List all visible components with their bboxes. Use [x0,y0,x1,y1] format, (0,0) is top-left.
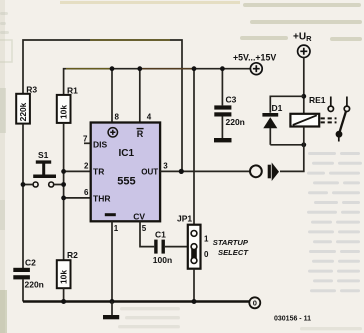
svg-text:R1: R1 [67,85,78,95]
junction rail-pin4 [137,66,142,71]
svg-text:OUT: OUT [141,168,158,177]
svg-text:THR: THR [93,193,110,203]
wire: JP1 bottom to ground bus [193,269,195,302]
IC1 internal ground marker [105,213,116,216]
terminal +5V [250,63,262,75]
svg-text:10k: 10k [59,105,69,119]
resistor R1 [57,95,71,123]
bleed-through artifacts bottom [118,307,362,330]
pin 7 stub [84,142,91,144]
pushbutton S1 [23,160,64,187]
wire: R1 bottom down to R2 [63,123,65,260]
svg-text:D1: D1 [272,103,283,113]
relay RE1 coil [290,114,319,127]
relay switch arm [340,111,346,131]
svg-text:+5V...+15V: +5V...+15V [233,52,276,62]
svg-text:IC1: IC1 [119,148,135,159]
svg-text:030156 - 11: 030156 - 11 [274,315,311,322]
junction D1 bottom [301,142,306,147]
wire: relay coil to OUT arrow [280,127,304,172]
junction D1 top [301,94,306,99]
svg-text:+UR: +UR [293,32,312,44]
junction THR [61,196,66,201]
wire tint overlay top [90,39,170,41]
wire: THR to node [64,197,91,199]
svg-text:RE1: RE1 [309,95,326,105]
wire: D1 bottom branch [270,144,304,146]
svg-text:R: R [137,129,144,139]
svg-text:R3: R3 [26,84,37,94]
wire: +UR to relay [303,58,305,114]
ground symbol [103,302,119,320]
svg-text:8: 8 [115,112,120,121]
wire: pin4 to rail [139,69,141,123]
wire tint overlay rail [66,68,111,70]
svg-text:220n: 220n [25,280,44,290]
wire: TR to node [64,170,91,172]
edge artifact marks left top [0,12,9,34]
wire: pin1 to ground bus [111,221,113,301]
diode D1 [262,113,278,145]
svg-text:555: 555 [117,175,135,187]
capacitor C1 [154,240,188,254]
svg-text:220n: 220n [226,117,245,127]
capacitor C2 [13,268,30,302]
svg-text:S1: S1 [38,150,49,160]
IC1 reset bar label [137,129,144,139]
svg-text:0: 0 [204,250,209,259]
bleed-through artifacts top right [240,3,362,41]
ground (C3) [214,138,232,142]
capacitor C3 [214,105,231,138]
svg-text:C2: C2 [25,257,36,267]
svg-text:5: 5 [142,224,147,233]
relay switch contacts [328,106,350,111]
junction rail-JP1 [192,66,197,71]
ground bus wire [23,300,249,302]
svg-text:STARTUP: STARTUP [213,238,249,247]
relay switch pole contact [336,131,342,137]
wire: R3 top to OUT node (top feedback wire) [23,40,182,171]
relay actuation dashed link [321,118,337,122]
junction S1 right [61,182,66,187]
off-board arrow [268,163,279,182]
wire: pin5 to C1 [140,221,154,246]
svg-text:6: 6 [84,188,89,197]
svg-text:7: 7 [83,134,88,143]
svg-text:SELECT: SELECT [218,248,249,257]
junction bus-R2 [61,299,66,304]
IC1 plus symbol (pin8) [108,128,117,137]
svg-text:R2: R2 [67,250,78,260]
svg-text:220k: 220k [18,102,28,121]
terminal +UR [298,45,310,57]
wire: R2 bottom to ground bus [63,288,65,301]
svg-text:2: 2 [84,161,89,170]
terminal 0 [249,297,260,308]
svg-text:TR: TR [93,167,104,177]
wire: OUT line [160,170,250,172]
edge artifact ghost box left [0,40,12,62]
edge artifact top [60,1,240,4]
op IC1 555 body [91,123,160,222]
wire: D1 top branch [270,96,304,113]
junction bus-pin1 [110,299,115,304]
wire: +5V rail [64,69,251,95]
junction S1 left [21,182,26,187]
svg-text:C3: C3 [226,94,237,104]
wire: rail to C3 [221,69,223,106]
resistor R3 [16,94,30,124]
svg-text:JP1: JP1 [177,214,192,224]
svg-text:1: 1 [204,235,209,244]
junction rail-C3 [220,66,225,71]
label STARTUP SELECT [213,238,250,257]
junction bus-JP1 [192,299,197,304]
resistor R2 [57,260,71,288]
svg-text:DIS: DIS [93,139,108,149]
junction OUT-R3 [179,169,184,174]
wire: pin8 to rail [111,69,113,123]
svg-text:0: 0 [253,299,257,308]
svg-text:4: 4 [147,112,152,121]
wire: R3 bottom down to C2 [22,124,24,268]
jumper JP1 [188,225,201,269]
junction rail-pin8 [110,66,115,71]
svg-text:3: 3 [163,162,168,171]
svg-text:CV: CV [133,212,145,222]
bleed-through artifacts right [307,152,362,292]
terminal OUT circle [250,165,262,177]
svg-text:100n: 100n [153,255,172,265]
junction TR [61,169,66,174]
svg-text:10k: 10k [59,270,69,284]
edge artifacts left [0,0,7,333]
wire: rail to JP1 pin1 [193,69,195,225]
svg-text:1: 1 [114,224,119,233]
svg-text:C1: C1 [155,230,166,240]
wire tint overlay rail 2 [141,68,193,70]
